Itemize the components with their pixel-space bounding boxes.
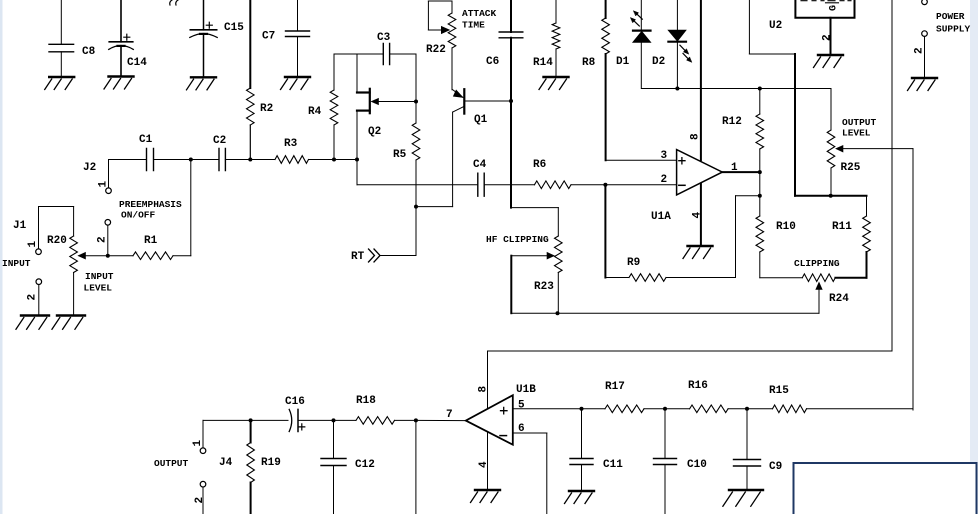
wire R8 foot to U1A pin 3 [606,159,677,161]
node R19 top [249,418,253,422]
svg-text:ATTACK: ATTACK [462,8,497,19]
label output level [842,117,877,139]
svg-text:INPUT: INPUT [2,258,31,269]
U1B pin 6 wire [513,433,547,514]
LED D1 [616,0,651,89]
capacitor C12 [321,420,375,514]
capacitor C6 [486,0,523,208]
connector J1 [2,220,42,315]
svg-text:R4: R4 [308,106,322,118]
svg-text:C10: C10 [687,459,707,471]
resistor R19 [247,420,281,514]
svg-text:CLIPPING: CLIPPING [794,258,840,269]
svg-text:R15: R15 [769,385,789,397]
op-amp U1A [651,150,738,223]
svg-text:OUTPUT: OUTPUT [154,458,189,469]
node R5/Q1/RT [414,205,418,209]
svg-text:R20: R20 [47,235,67,247]
svg-text:R6: R6 [533,159,546,171]
connector J2 [83,160,111,256]
capacitor C16 [251,396,334,432]
svg-text:J1: J1 [13,220,27,232]
U1A pin 8 supply wire [690,0,702,160]
svg-text:OUTPUT: OUTPUT [842,117,877,128]
svg-text:TIME: TIME [462,20,485,31]
svg-text:Q2: Q2 [368,126,381,138]
capacitor C10 [654,409,707,514]
capacitor C1 [109,134,191,171]
node Q1 base / C6 [509,99,513,103]
svg-text:HF CLIPPING: HF CLIPPING [486,234,549,245]
svg-text:R23: R23 [534,281,554,293]
svg-text:POWER: POWER [936,11,965,22]
svg-text:ON/OFF: ON/OFF [121,210,156,221]
resistor R12 [722,89,764,173]
svg-text:C4: C4 [473,159,487,171]
capacitor C11 [570,409,623,491]
svg-text:2: 2 [194,497,206,504]
svg-text:1: 1 [192,440,204,447]
U2 supply input wire [749,0,795,54]
connector POWER SUPPLY [914,0,971,78]
wire inverting node down to R9 [604,185,606,278]
U2 pin 2 wire [822,18,834,55]
potentiometer R22 [426,1,456,90]
svg-text:U1B: U1B [516,384,536,396]
node R23 foot [556,311,560,315]
label preemphasis [119,199,182,221]
svg-text:R24: R24 [829,293,849,305]
svg-text:C1: C1 [139,134,153,146]
wire to U1A pin 2 [605,184,676,186]
capacitor C15 [190,0,244,77]
ground for power supply [908,78,938,91]
svg-text:C15: C15 [224,22,244,34]
svg-text:8: 8 [478,386,490,393]
connector RT [351,207,416,263]
potentiometer R25 [827,89,913,196]
ground for C14 [104,77,134,90]
resistor R18 [334,395,416,424]
svg-text:R12: R12 [722,116,742,128]
svg-text:R3: R3 [284,138,298,150]
resistor R6 [533,159,605,189]
svg-text:R25: R25 [841,162,861,174]
svg-text:C9: C9 [769,461,782,473]
svg-text:R9: R9 [627,257,640,269]
node D2 foot [675,87,679,91]
svg-text:LEVEL: LEVEL [84,283,113,294]
svg-text:INPUT: INPUT [85,271,114,282]
node Q2 source [355,158,359,162]
V+ rail wire [795,54,867,196]
page edge tint right [970,0,978,514]
node pin7 branch [414,418,418,422]
wire R10 foot to R24 left [760,277,803,279]
resistor R3 [250,138,334,163]
svg-text:R17: R17 [605,381,625,393]
svg-text:C12: C12 [355,459,375,471]
potentiometer R20 [39,207,108,316]
resistor R4 [308,54,338,160]
U1B pin 5 wire [513,408,582,410]
op-amp U1B [446,384,536,445]
svg-text:2: 2 [822,34,834,41]
svg-text:C7: C7 [262,31,275,43]
resistor R5 [393,54,420,207]
svg-text:R18: R18 [356,395,376,407]
ground for U1A [683,246,713,259]
svg-text:J4: J4 [219,457,233,469]
node R4 foot [332,158,336,162]
svg-text:R2: R2 [260,103,273,115]
wire C6 foot to R23 top [511,208,558,236]
resistor R10 [756,196,796,278]
resistor R14 [533,0,560,77]
svg-text:2: 2 [661,174,668,186]
node C9 top [745,407,749,411]
wire top rail to U1B supply [488,0,893,409]
svg-text:U2: U2 [769,20,782,32]
svg-text:2: 2 [914,47,926,54]
svg-text:2: 2 [27,294,39,301]
svg-text:J2: J2 [83,162,96,174]
node R10 / feedback [758,194,762,198]
svg-text:D1: D1 [616,56,630,68]
resistor R1 [108,160,191,260]
ground for J1 [16,316,49,330]
node C11 top [580,407,584,411]
cut-off symbol at top edge [170,0,178,5]
node C1/R1 [189,158,193,162]
svg-text:C3: C3 [377,32,391,44]
wire Q2 node down to C4 [357,160,478,185]
svg-text:R14: R14 [533,57,553,69]
wire to U1B output [416,420,466,514]
resistor R2 [247,0,274,160]
svg-text:R8: R8 [582,57,596,69]
node inverting input / R8 branch [603,183,607,187]
capacitor C14 [109,0,148,77]
potentiometer R24 [802,274,849,313]
node Q2 gate / C3 / R5 [414,100,418,104]
ground for U2 [814,55,844,68]
capacitor C8 [49,0,96,77]
capacitor C3 [334,32,416,65]
svg-text:R1: R1 [144,235,158,247]
LED D2 [652,0,692,89]
ground for C8 [45,77,74,90]
svg-text:4: 4 [478,461,490,468]
resistor R9 [605,257,666,281]
node R25 foot [829,194,833,198]
svg-text:SUPPLY: SUPPLY [936,24,971,35]
node C10 top [663,407,667,411]
ground for C7 [281,77,311,90]
node C12 top [332,418,336,422]
wire Q1 collector to R5 foot [416,206,453,208]
ground for C11 [565,491,595,504]
title block frame [794,463,977,514]
ground for C15 [187,77,217,90]
wire R12 foot to R10 [759,172,761,196]
svg-text:8: 8 [690,133,702,140]
svg-text:R22: R22 [426,44,446,56]
svg-text:1: 1 [27,241,39,248]
regulator U2 [769,0,855,32]
resistor R17 [582,381,666,413]
wire to Q2 source [334,159,357,161]
U1A output wire [722,171,760,173]
svg-text:U1A: U1A [651,211,671,223]
capacitor C7 [262,0,310,77]
svg-text:R19: R19 [261,457,281,469]
U1A pin 4 wire and ground [692,184,704,246]
wire output-level wiper to R15 [912,149,914,410]
resistor R8 [582,0,609,160]
resistor R11 [832,196,870,278]
capacitor C4 [473,159,535,196]
ground for U1B [471,490,501,503]
svg-text:4: 4 [692,212,704,219]
wire feedback from R10 node [666,196,760,278]
svg-text:RT: RT [351,251,365,263]
ground for R14 [539,77,569,90]
capacitor C2 [191,135,251,171]
svg-text:C8: C8 [82,46,96,58]
connector J4 [192,420,251,514]
resistor R16 [665,380,747,413]
U1B pin 4 wire and ground [478,432,490,490]
svg-text:G: G [829,5,840,11]
ground for C9 [723,490,763,506]
svg-text:PREEMPHASIS: PREEMPHASIS [119,199,182,210]
svg-text:C2: C2 [213,135,226,147]
svg-text:Q1: Q1 [474,114,488,126]
svg-text:C14: C14 [127,57,147,69]
label attack time [462,8,497,31]
svg-text:R10: R10 [776,221,796,233]
svg-text:R5: R5 [393,149,407,161]
node U1A output / R12 [758,170,762,174]
svg-text:5: 5 [518,400,525,412]
ground for R20 [52,316,85,330]
wire D1/D2 rail to R25 [642,88,832,90]
potentiometer R23 [511,236,562,313]
svg-text:2: 2 [97,236,109,243]
svg-text:LEVEL: LEVEL [842,128,871,139]
node R1/R20/J2-2 [106,254,110,258]
node R2 foot [248,158,252,162]
svg-text:D2: D2 [652,56,665,68]
node R12 rail [758,87,762,91]
svg-text:R11: R11 [832,221,852,233]
svg-text:1: 1 [98,181,110,188]
capacitor C9 [734,409,783,490]
svg-text:C6: C6 [486,56,499,68]
svg-text:3: 3 [661,150,668,162]
resistor R15 [747,385,913,413]
svg-text:R16: R16 [688,380,708,392]
svg-text:C16: C16 [285,396,305,408]
page edge tint left [0,0,3,514]
wire clipping bus [558,312,820,314]
svg-text:C11: C11 [603,459,623,471]
label input level [84,271,114,294]
svg-text:7: 7 [446,409,453,421]
transistor Q1 PNP [453,89,511,206]
transistor Q2 JFET [357,54,416,160]
